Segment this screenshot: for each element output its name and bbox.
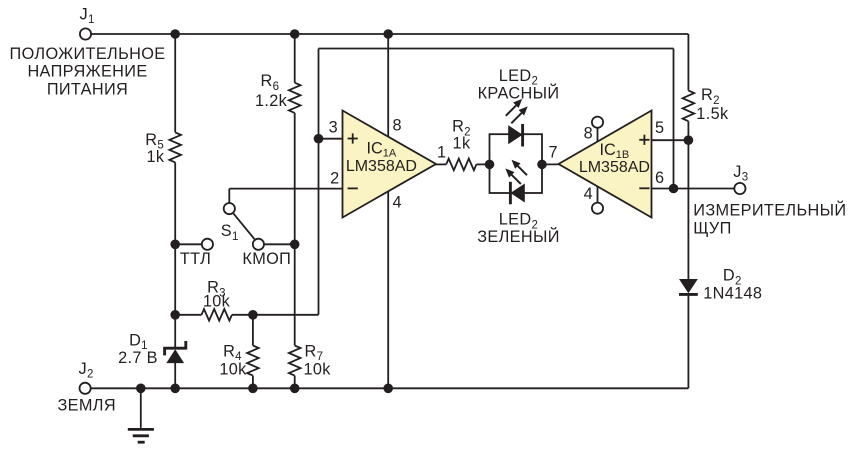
wire pin3 stub: [319, 138, 343, 140]
IC1B pin 4 stub and terminal: [597, 186, 599, 202]
node LED right: [537, 160, 547, 170]
wire pin6 from IC1B to J3: [652, 188, 734, 190]
wire pin5 node down to D2 anode: [687, 140, 689, 279]
connector J3: [734, 183, 745, 194]
svg-text:4: 4: [584, 185, 593, 203]
wire TTL terminal from R5 line: [175, 243, 201, 245]
wire feedback left vertical down to R3 row: [318, 49, 320, 315]
node top rail / R6: [290, 29, 300, 39]
svg-text:LM358AD: LM358AD: [346, 158, 417, 175]
wire S1 pivot riser: [228, 189, 230, 203]
IC1A minus sign pin2: [348, 187, 358, 189]
svg-text:6: 6: [655, 169, 664, 187]
node pin3 / feedback: [314, 134, 324, 144]
svg-text:10k: 10k: [304, 361, 332, 379]
svg-text:2: 2: [330, 170, 339, 188]
wire D1 anode to ground rail: [174, 363, 176, 388]
switch S1 pivot terminal: [224, 203, 235, 214]
node D1 / ground rail: [170, 384, 180, 394]
zener D1 2.7V (cathode up): [166, 349, 184, 363]
wire top V+ rail from J1 to right corner: [91, 33, 688, 35]
wire pin2 from S1 pivot to IC1A: [229, 188, 342, 190]
svg-text:1N4148: 1N4148: [703, 285, 762, 303]
node top rail / pin8 line: [383, 29, 393, 39]
LED2 red arrows: [506, 105, 517, 116]
svg-text:1k: 1k: [453, 134, 471, 152]
wire R5/D1 vertical: top rail to R5: [174, 34, 176, 132]
wire pin5 from IC1B to R2/D2 node: [652, 139, 689, 141]
node R4 / ground rail: [248, 384, 258, 394]
svg-text:ПОЛОЖИТЕЛЬНОЕ: ПОЛОЖИТЕЛЬНОЕ: [10, 45, 166, 63]
wire feedback top rail (pin6 to pin3 net): [319, 48, 674, 50]
node LED left: [485, 160, 495, 170]
svg-text:5: 5: [655, 119, 664, 137]
switch S1 arm: [234, 214, 255, 240]
node top rail / R5: [170, 29, 180, 39]
svg-text:S1: S1: [221, 222, 239, 243]
IC1B pin 8 stub and terminal: [597, 128, 599, 142]
node R7 / ground rail: [290, 384, 300, 394]
svg-text:1: 1: [437, 143, 446, 161]
resistor R5 1k: [169, 132, 181, 162]
wire feedback right vertical down to pin6 dot: [673, 49, 675, 189]
svg-text:10k: 10k: [219, 361, 247, 379]
wire R7 bottom to ground rail: [294, 376, 296, 389]
svg-text:4: 4: [393, 194, 402, 212]
IC1A plus sign pin3: [348, 138, 358, 140]
wire R4 bottom lead: [252, 376, 254, 389]
resistor R3 10k: [202, 309, 232, 321]
node R3 left / R5 line: [170, 310, 180, 320]
svg-text:ПИТАНИЯ: ПИТАНИЯ: [47, 80, 128, 98]
svg-text:2.7 В: 2.7 В: [118, 349, 158, 367]
svg-text:8: 8: [393, 116, 402, 134]
node ground stub: [136, 384, 146, 394]
wire bottom ground rail: [91, 387, 689, 389]
wire pins 8/4 vertical through IC1A: [387, 34, 389, 388]
node TTL / R5 line: [170, 240, 180, 250]
wire pin7 from LED node to IC1B apex: [542, 163, 559, 165]
op-amp U IC1A triangle: [343, 111, 437, 218]
resistor R2 1.5k (top right): [683, 91, 695, 122]
svg-text:J1: J1: [80, 5, 95, 26]
LED2 green arrows: [511, 174, 521, 184]
resistor R2 1k (between pin1 and LEDs): [446, 159, 476, 171]
wire R2 bottom to pin5 node: [687, 121, 689, 140]
svg-text:НАПРЯЖЕНИЕ: НАПРЯЖЕНИЕ: [27, 63, 147, 81]
wire R6 bottom to KMOP node to R7 top: [294, 113, 296, 346]
svg-text:1.5k: 1.5k: [696, 105, 729, 123]
node pin6 / feedback: [669, 184, 679, 194]
wire right vertical V+ down to R2 top: [687, 34, 689, 91]
ground: [140, 388, 142, 428]
svg-text:ЗЕЛЕНЫЙ: ЗЕЛЕНЫЙ: [477, 227, 560, 246]
svg-text:ИЗМЕРИТЕЛЬНЫЙ: ИЗМЕРИТЕЛЬНЫЙ: [693, 201, 846, 220]
wire R3 row from feedback corner to R3 right node: [232, 314, 319, 316]
LED2 red (top, pointing right): [508, 125, 522, 144]
wire R2 right lead to LED node: [476, 163, 489, 165]
svg-text:ЗЕМЛЯ: ЗЕМЛЯ: [58, 396, 116, 414]
wire D2 cathode down to bottom-right corner: [687, 294, 689, 388]
svg-text:J3: J3: [733, 163, 748, 184]
svg-text:КМОП: КМОП: [242, 250, 291, 268]
diode D2 1N4148 (cathode down): [679, 279, 698, 293]
svg-text:10k: 10k: [203, 293, 231, 311]
wire pin1 output to R2: [435, 163, 447, 165]
LED2 green (bottom, pointing left): [510, 184, 524, 203]
resistor R4 10k: [247, 346, 259, 376]
node pin4 line / ground rail: [383, 384, 393, 394]
wire R3 left lead to R5/D1 line: [175, 314, 201, 316]
svg-text:ЩУП: ЩУП: [693, 219, 731, 237]
svg-text:1.2k: 1.2k: [255, 92, 288, 110]
connector J2: [80, 383, 91, 394]
switch S1 TTL terminal: [202, 239, 213, 250]
svg-text:КРАСНЫЙ: КРАСНЫЙ: [478, 83, 560, 102]
IC1B minus sign pin6: [639, 187, 649, 189]
IC1B plus sign pin5: [639, 139, 649, 141]
resistor R7 10k: [289, 346, 301, 376]
svg-text:ТТЛ: ТТЛ: [180, 250, 211, 268]
svg-text:J2: J2: [79, 360, 94, 381]
switch S1 KMOP terminal: [253, 239, 264, 250]
op-amp U IC1B triangle (points left): [559, 111, 652, 218]
connector J1: [80, 28, 91, 39]
wire R6/R7 vertical: top rail to R6: [294, 34, 296, 83]
svg-text:3: 3: [329, 119, 338, 137]
svg-text:R6: R6: [261, 72, 280, 93]
node pin5 / R2 / D2: [684, 135, 694, 145]
node R3 right / R4 top: [248, 310, 258, 320]
svg-text:7: 7: [549, 144, 558, 162]
wire R5 bottom to TTL node to R3 row to D1: [174, 162, 176, 348]
svg-text:1k: 1k: [147, 148, 165, 166]
LED bridge rectangle: [490, 134, 543, 193]
svg-text:8: 8: [584, 125, 593, 143]
resistor R6 1.2k: [289, 83, 301, 113]
svg-text:LM358AD: LM358AD: [579, 159, 650, 176]
wire KMOP terminal to R6/R7 line: [265, 243, 295, 245]
wire R4 top lead: [252, 315, 254, 346]
node KMOP / R6 line: [290, 240, 300, 250]
